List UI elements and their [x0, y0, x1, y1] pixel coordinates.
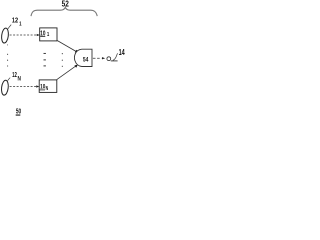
svg-text:N: N — [18, 76, 21, 83]
svg-text:12: 12 — [12, 17, 18, 25]
svg-text:12: 12 — [12, 72, 17, 79]
svg-text:54: 54 — [83, 57, 89, 64]
svg-text:N: N — [46, 85, 49, 92]
svg-text:52: 52 — [62, 0, 69, 8]
svg-text:1: 1 — [19, 21, 22, 28]
svg-text:1: 1 — [47, 31, 50, 38]
svg-text:14: 14 — [119, 49, 125, 57]
